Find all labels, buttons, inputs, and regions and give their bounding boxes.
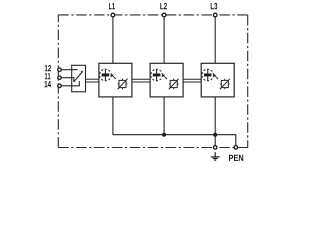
label L3 (211, 3, 218, 9)
spark gap F1 (dashed circle, electrode bar, trigger arrow) (100, 69, 116, 81)
label PEN (229, 155, 243, 161)
mechanical linkage contact-to-module1 (86, 79, 99, 82)
label L1 (109, 3, 115, 9)
PEN terminal (234, 146, 238, 150)
enclosure border (dash-dot device outline) (58, 15, 247, 148)
wire L1 drop (112, 15, 114, 63)
wire bus (113, 135, 236, 146)
label 12 (45, 65, 51, 71)
remote signalling contact terminal 12 (58, 68, 72, 72)
disconnector F2 (square with slash) (169, 79, 179, 90)
wire L2 drop (163, 15, 165, 63)
terminal L1 (111, 13, 115, 17)
ground symbol (211, 152, 220, 160)
label 11 (45, 73, 51, 79)
arrester module F3 box (201, 63, 234, 97)
wire L3 drop (214, 15, 216, 63)
label L2 (160, 3, 167, 9)
wire module1 to bus (112, 97, 114, 135)
mechanical linkage module1-to-module2 (132, 79, 150, 82)
remote signalling contact terminal 11 (58, 76, 72, 80)
wire module3 to earth terminal (214, 97, 216, 146)
disconnector F1 (square with slash) (118, 79, 128, 90)
terminal L2 (162, 13, 166, 17)
disconnector F3 (square with slash) (220, 79, 230, 90)
mechanical linkage module2-to-module3 (183, 79, 201, 82)
changeover contact lever arrowhead (81, 71, 84, 73)
arrester module F2 box (150, 63, 183, 97)
label 14 (45, 81, 51, 87)
arrester module F1 box (99, 63, 132, 97)
wire module2 to bus (163, 97, 165, 135)
node junction L2/bus (162, 133, 166, 137)
earth terminal (213, 146, 217, 150)
remote signalling contact terminal 14 (58, 84, 72, 88)
terminal L3 (213, 13, 217, 17)
spark gap F2 (dashed circle, electrode bar, trigger arrow) (151, 69, 167, 81)
spark gap F3 (dashed circle, electrode bar, trigger arrow) (202, 69, 218, 81)
changeover contact K1 (remote signalling switch) (72, 65, 86, 92)
node junction L3/bus (213, 133, 217, 137)
